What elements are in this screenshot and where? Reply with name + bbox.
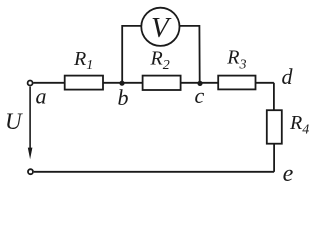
svg-text:U: U xyxy=(5,109,23,134)
svg-text:a: a xyxy=(36,83,47,108)
svg-text:b: b xyxy=(118,85,129,110)
svg-text:d: d xyxy=(282,64,294,89)
svg-text:c: c xyxy=(195,83,205,108)
svg-text:e: e xyxy=(283,161,294,187)
